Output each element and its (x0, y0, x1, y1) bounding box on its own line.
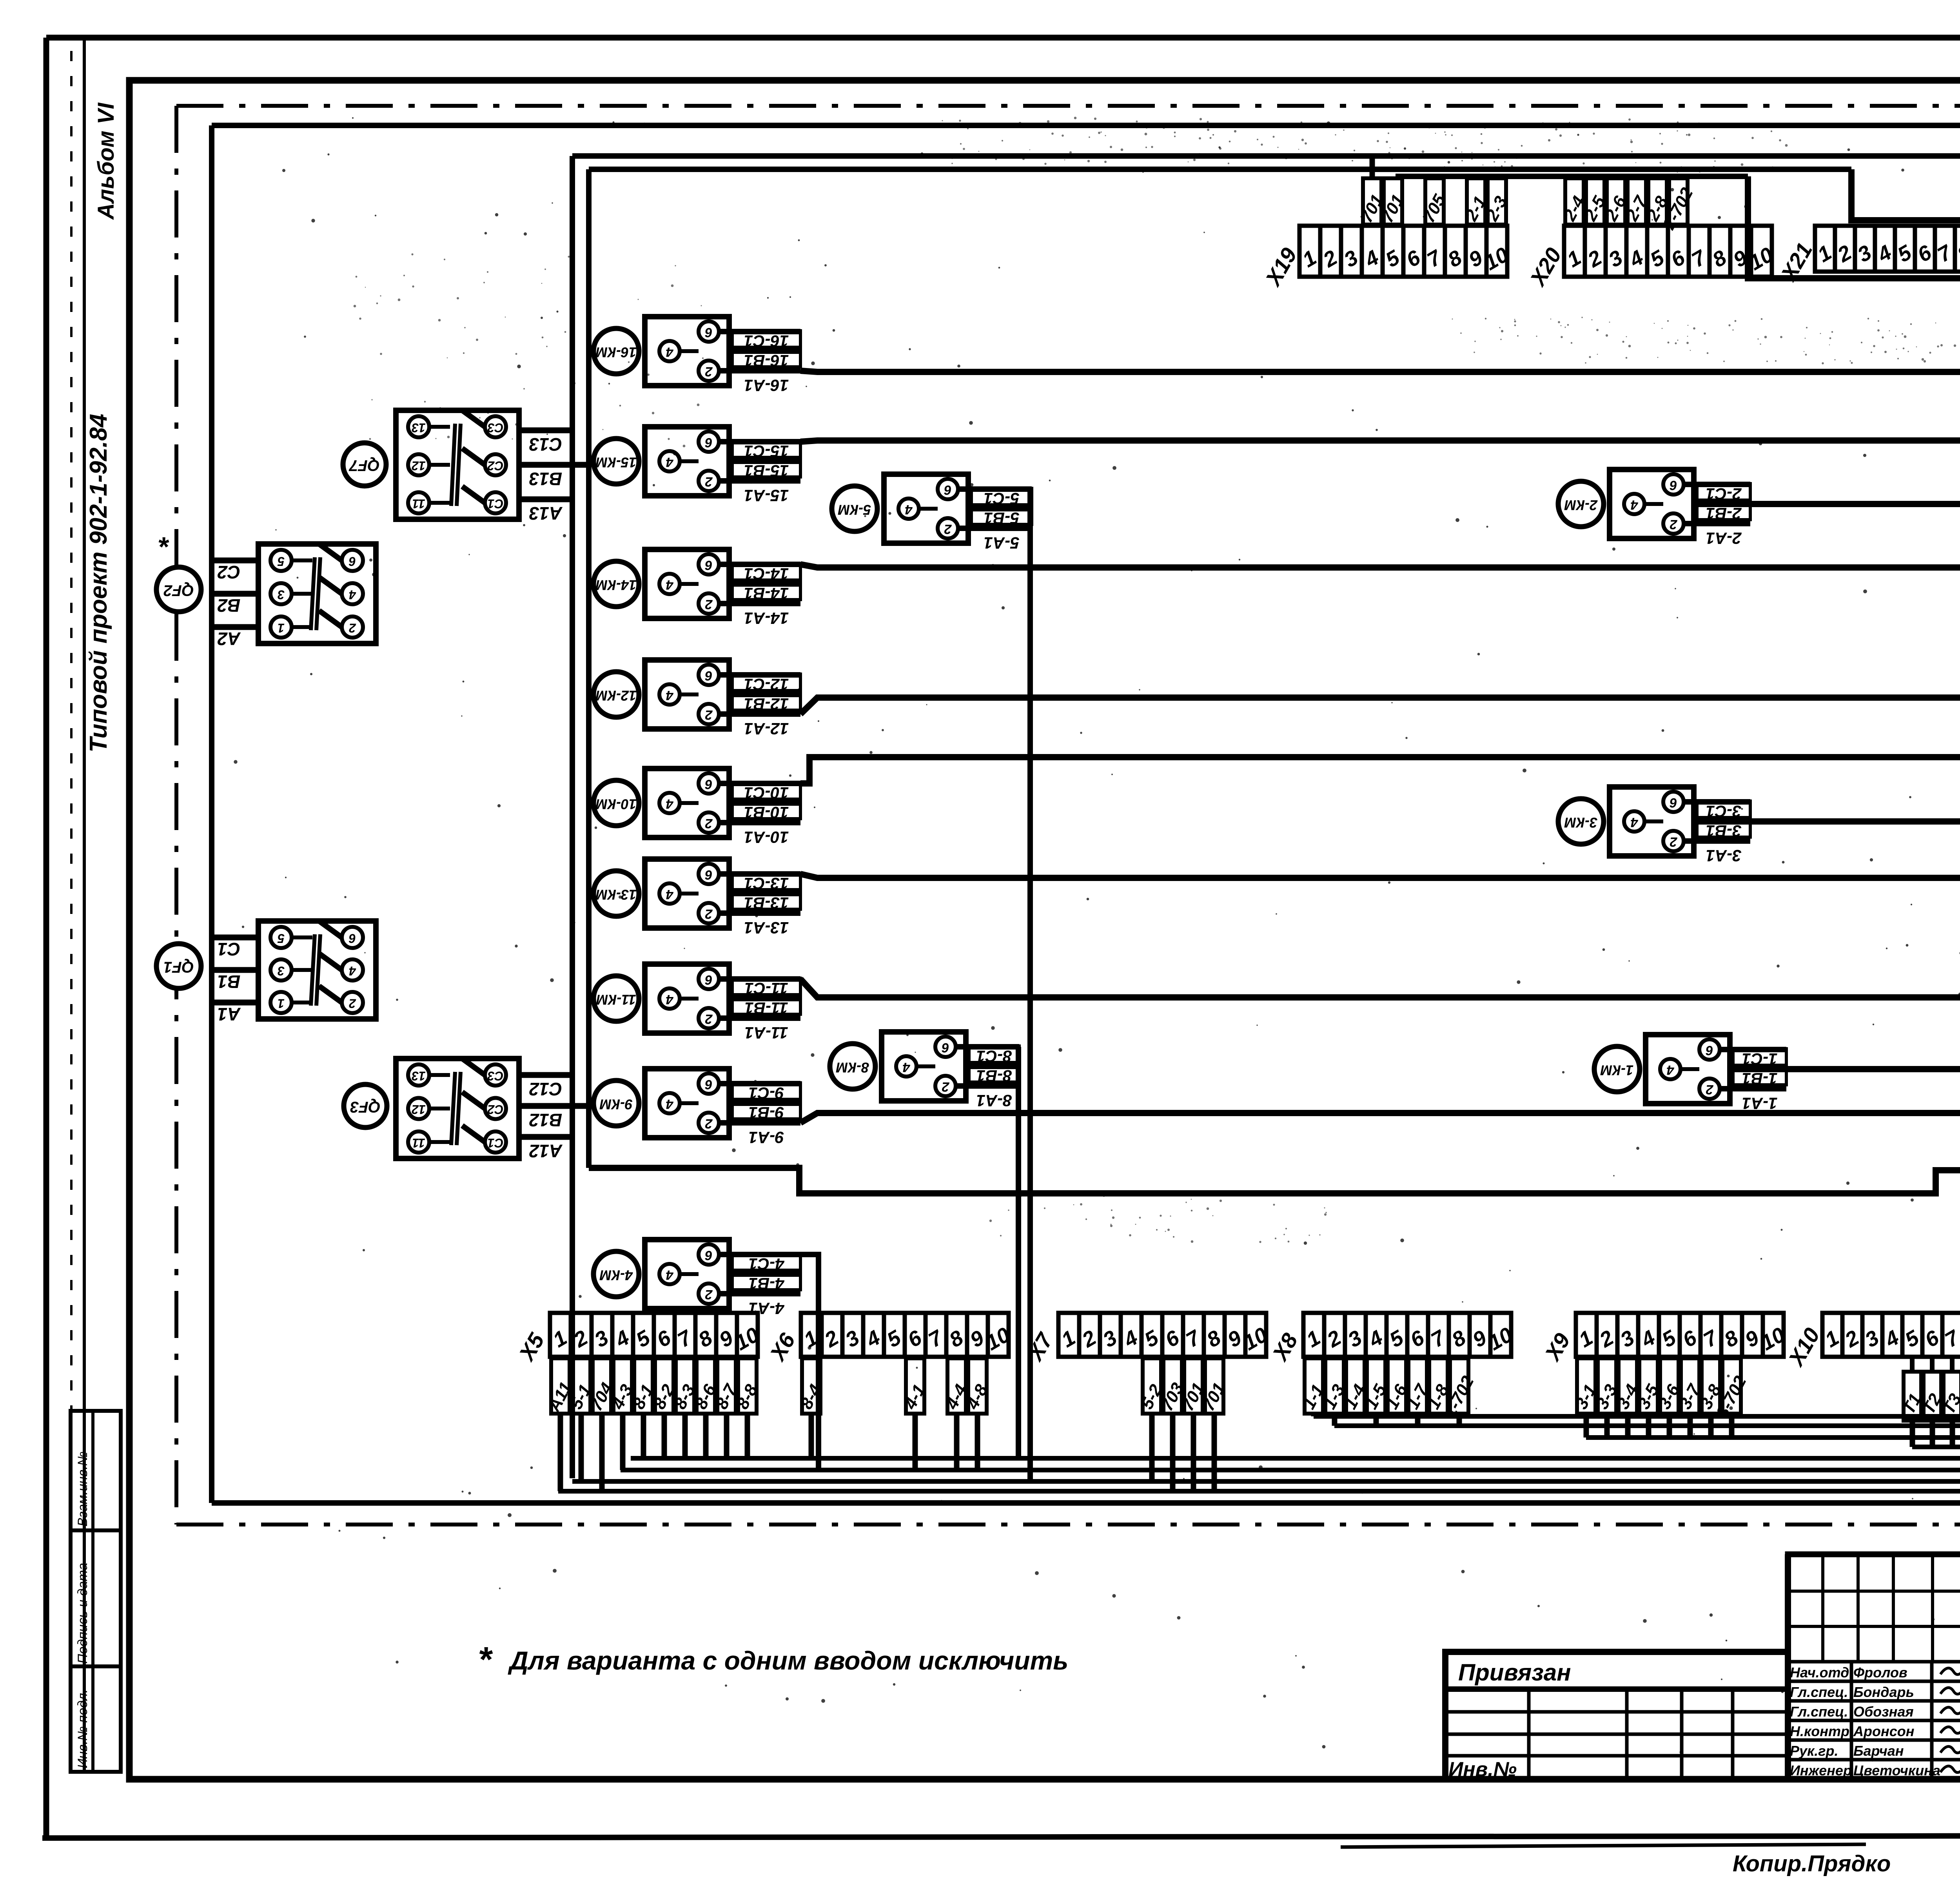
svg-text:QF7: QF7 (348, 457, 380, 474)
cabinet boundary dash-dot left (174, 106, 178, 1525)
QF2 pin 3 (270, 583, 292, 604)
svg-text:5-С1: 5-С1 (984, 489, 1019, 508)
5-КМ pin 6 (938, 479, 958, 499)
wire 703 down (1170, 1414, 1176, 1491)
svg-text:Альбом VI: Альбом VI (93, 102, 119, 220)
svg-text:С2: С2 (217, 562, 240, 582)
terminal wire label 3-1 (1577, 1358, 1595, 1414)
svg-text:15-В1: 15-В1 (744, 462, 789, 480)
svg-text:2-КМ: 2-КМ (1564, 497, 1598, 513)
12-КМ pin 2 (699, 704, 719, 724)
svg-text:С12: С12 (529, 1079, 562, 1099)
8-КМ pin 6 (935, 1037, 956, 1057)
svg-text:2: 2 (1670, 834, 1677, 849)
wire 1-1 down (1311, 1414, 1317, 1416)
bus 1-x wires a (1314, 1414, 1960, 1419)
terminal wire label 2-7 (1628, 178, 1646, 225)
wire 15-КМ stub C (719, 439, 800, 444)
wire 4-3 down (620, 1414, 626, 1470)
svg-text:15-КМ: 15-КМ (595, 454, 637, 470)
svg-text:2: 2 (705, 1287, 713, 1302)
sheet border top (46, 35, 1960, 41)
svg-text:6: 6 (1669, 795, 1677, 810)
wire QF3 output A12 (519, 1134, 572, 1140)
wire 705 up (1432, 176, 1437, 178)
11-КМ pin 4 (659, 988, 680, 1009)
wire label 4-C1 (732, 1254, 800, 1270)
svg-text:2: 2 (349, 621, 356, 635)
svg-text:Бондарь: Бондарь (1853, 1684, 1914, 1700)
wire 2-3 up (1494, 176, 1500, 178)
svg-text:А1: А1 (218, 1004, 241, 1024)
svg-text:QF3: QF3 (350, 1098, 381, 1115)
svg-text:QF2: QF2 (163, 582, 194, 599)
wire label 12-C1 (732, 674, 800, 691)
svg-text:6: 6 (704, 1077, 712, 1092)
wire 13-КМ long run (800, 874, 1960, 878)
svg-text:2: 2 (705, 597, 713, 612)
svg-text:5-В1: 5-В1 (984, 509, 1019, 528)
svg-text:9-А1: 9-А1 (748, 1128, 784, 1147)
circuit breaker QF3 box (396, 1059, 519, 1158)
QF3 pin 11 (408, 1131, 429, 1153)
svg-text:2: 2 (942, 1079, 949, 1094)
wire 3-KM run to H3 row (1694, 818, 1960, 825)
svg-text:2: 2 (1670, 517, 1677, 532)
wire 3-702 down (1729, 1414, 1735, 1438)
wire label 16-B1 (732, 350, 800, 367)
svg-text:12: 12 (412, 1102, 426, 1117)
svg-text:Подпись и дата: Подпись и дата (75, 1563, 90, 1664)
QF7 pin С1 (485, 492, 506, 513)
wire 8-6 down (703, 1414, 709, 1458)
terminal wire label 4-3 (613, 1358, 632, 1414)
bus 3-x wires (1586, 1435, 1960, 1440)
terminal wire label 3-7 (1681, 1358, 1699, 1414)
wire 5-КМ stub B (968, 506, 1032, 511)
wire 8-КМ stub A (956, 1083, 1019, 1089)
terminal wire label 8-7 (717, 1358, 736, 1414)
device outline bottom (212, 1500, 1960, 1506)
2-КМ pin 2 (1663, 513, 1684, 534)
svg-text:12-В1: 12-В1 (744, 695, 789, 713)
wire 4-КМ stub A (719, 1291, 800, 1296)
scan smudge clusters (354, 117, 1960, 1243)
bus 1-x wires b (1334, 1423, 1960, 1428)
svg-text:4: 4 (1630, 497, 1638, 512)
svg-text:4: 4 (1666, 1062, 1674, 1077)
3-КМ pin 6 (1663, 792, 1684, 812)
wire 8-КМ stub B (966, 1064, 1019, 1069)
stamp box Podpis i data (71, 1530, 121, 1666)
terminal wire label 1-8 (1429, 1358, 1448, 1414)
wire step to K6 row (1851, 169, 1960, 255)
terminal wire label 5-2 (1143, 1358, 1161, 1414)
terminal wire label 704 (593, 1358, 611, 1414)
svg-text:12-А1: 12-А1 (744, 720, 789, 738)
8-КМ pin 4 (896, 1056, 916, 1077)
svg-text:8-КМ: 8-КМ (836, 1059, 869, 1075)
svg-text:Нач.отд.: Нач.отд. (1790, 1664, 1853, 1680)
wire 2-КМ stub A (1684, 521, 1750, 526)
circuit breaker QF1 circle (156, 944, 201, 988)
wire 16-КМ stub B (729, 348, 800, 354)
svg-text:С1: С1 (488, 497, 504, 511)
terminal wire label 2-3 (1488, 178, 1506, 225)
wire 5-КМ stub C (958, 486, 1032, 492)
contactor 11-КМ circle (593, 976, 639, 1021)
terminal wire label 2-6 (1607, 178, 1625, 225)
contactor 4-КМ circle (593, 1251, 639, 1297)
contactor 16-КМ box (645, 317, 729, 386)
wire 8-3 down (682, 1414, 688, 1458)
16-КМ pin 4 (659, 341, 680, 361)
13-КМ pin 6 (699, 864, 719, 884)
svg-text:3: 3 (278, 964, 285, 978)
svg-text:1-КМ: 1-КМ (1600, 1062, 1633, 1078)
wire 2-4 up (1572, 176, 1577, 178)
wire 10-KM jog to K10 row (800, 757, 1960, 783)
wire 2-КМ stub C (1684, 482, 1750, 487)
wire Т1 down (1910, 1421, 1915, 1447)
terminal wire label 8-6 (697, 1358, 715, 1414)
svg-text:С1: С1 (218, 939, 241, 959)
svg-text:13: 13 (412, 421, 426, 435)
svg-text:4: 4 (666, 1097, 673, 1111)
QF3 pin С1 (485, 1131, 506, 1153)
wires X10 cells to T labels (1910, 1357, 1915, 1372)
svg-text:2: 2 (705, 906, 713, 921)
wire label 15-B1 (732, 460, 800, 477)
terminal wire label 4-8 (968, 1358, 987, 1414)
terminal wire label 3-4 (1619, 1358, 1637, 1414)
3-КМ pin 4 (1624, 811, 1644, 832)
circuit breaker QF7 box (396, 410, 519, 519)
svg-text:4: 4 (666, 887, 673, 902)
4-КМ pin 2 (699, 1283, 719, 1304)
wire label 16-C1 (732, 331, 800, 347)
feeder line B to yaschik 18 (572, 153, 1960, 159)
svg-text:6: 6 (704, 435, 712, 450)
wire QF7 output A13 (519, 497, 572, 502)
svg-text:Привязан: Привязан (1458, 1659, 1571, 1686)
terminal wire label 3-3 (1598, 1358, 1616, 1414)
svg-text:5: 5 (277, 555, 285, 569)
svg-text:В13: В13 (529, 469, 562, 489)
wire 701 down (1212, 1414, 1217, 1491)
wire label 13-B1 (732, 893, 800, 909)
terminal wire label 705 (1425, 178, 1444, 225)
svg-text:6: 6 (704, 558, 712, 573)
wire 11-КМ stub B (729, 996, 800, 1001)
sheet border left (44, 38, 49, 1835)
svg-text:2: 2 (705, 1012, 713, 1026)
terminal wire label 701 (1363, 178, 1381, 225)
svg-text:10-А1: 10-А1 (744, 828, 789, 847)
svg-text:12: 12 (412, 459, 426, 473)
14-КМ pin 6 (699, 554, 719, 575)
wire 1-5 down (1374, 1414, 1379, 1426)
QF1 trip bar (311, 934, 315, 1006)
wire label 10-C1 (732, 783, 800, 799)
contactor 15-КМ circle (593, 439, 639, 484)
wire 1-6 down (1394, 1414, 1400, 1416)
circuit breaker QF3 circle (344, 1084, 387, 1128)
terminal wire label 8-3 (676, 1358, 694, 1414)
wire 10-КМ stub A (719, 820, 800, 825)
QF2 pin 5 (270, 550, 292, 571)
wire 11-КМ stub A (719, 1015, 800, 1021)
svg-text:14-КМ: 14-КМ (595, 577, 637, 593)
svg-text:Фролов: Фролов (1853, 1664, 1907, 1680)
wire 1-3 down (1332, 1414, 1338, 1426)
contactor 11-КМ box (645, 964, 729, 1033)
terminal wire label 1-6 (1388, 1358, 1406, 1414)
wire Т2 down (1930, 1421, 1935, 1447)
svg-text:6: 6 (704, 325, 712, 340)
14-КМ pin 4 (659, 574, 680, 594)
QF2 pin 4 (342, 583, 363, 604)
svg-text:2: 2 (705, 474, 713, 489)
wire label 14-C1 (732, 564, 800, 580)
svg-text:4: 4 (1630, 815, 1638, 830)
wire label 2-C1 (1697, 484, 1750, 500)
terminal wire label 1-5 (1367, 1358, 1385, 1414)
bus T telemetry wires (1912, 1445, 1960, 1449)
wire 1-702 down (1457, 1414, 1462, 1426)
wire label 15-C1 (732, 441, 800, 457)
svg-text:1: 1 (278, 621, 285, 635)
wire QF3 output B12 (519, 1103, 589, 1109)
svg-text:4: 4 (349, 588, 356, 602)
QF2 pin 1 (270, 616, 292, 638)
QF3 pin 13 (408, 1064, 429, 1086)
svg-text:Гл.спец.: Гл.спец. (1790, 1684, 1848, 1700)
svg-text:Копир.Прядко: Копир.Прядко (1733, 1851, 1891, 1876)
9-КМ pin 2 (699, 1113, 719, 1133)
terminal wire label 8-8 (738, 1358, 757, 1414)
svg-text:4: 4 (666, 992, 673, 1007)
svg-text:10-С1: 10-С1 (744, 784, 789, 802)
wire 14-КМ long run (800, 564, 1960, 567)
QF3 trip bar (451, 1072, 455, 1145)
cabinet boundary dash-dot top (176, 104, 1960, 108)
wire 15-КМ long run (800, 441, 1960, 442)
svg-text:Инв.№ подл.: Инв.№ подл. (75, 1689, 90, 1768)
svg-text:Рук.гр.: Рук.гр. (1790, 1743, 1838, 1759)
wire 14-КМ stub A (719, 601, 800, 606)
wire QF3 route step (589, 1168, 1960, 1193)
contactor 10-КМ box (645, 769, 729, 838)
wire label 9-B1 (732, 1102, 800, 1119)
svg-text:5-КМ: 5-КМ (838, 502, 871, 518)
11-КМ pin 2 (699, 1008, 719, 1028)
wire label 12-B1 (732, 694, 800, 710)
terminal wire label Т3 (1944, 1372, 1960, 1421)
svg-text:11-А1: 11-А1 (744, 1024, 788, 1042)
wire 8-KM riser down to 8-x bus (1016, 1047, 1021, 1458)
svg-text:2: 2 (944, 522, 952, 537)
wire 5-2 down (1149, 1414, 1155, 1481)
privyazan box (1445, 1652, 1788, 1779)
svg-text:8-В1: 8-В1 (976, 1067, 1012, 1085)
9-КМ pin 6 (699, 1073, 719, 1094)
wire 1-КМ stub A (1720, 1086, 1786, 1091)
wire step to K2 row (1748, 176, 1960, 319)
terminal wire label 1-1 (1305, 1358, 1323, 1414)
svg-text:14-А1: 14-А1 (744, 609, 789, 627)
wire 3-КМ stub C (1684, 799, 1750, 805)
svg-text:8-А1: 8-А1 (976, 1091, 1012, 1110)
svg-text:4: 4 (666, 688, 673, 703)
wire label 11-C1 (732, 978, 800, 995)
svg-text:4: 4 (666, 796, 673, 811)
contactor 10-КМ circle (593, 780, 639, 826)
terminal wire label 4-4 (947, 1358, 966, 1414)
svg-text:С3: С3 (487, 421, 503, 435)
wire 701 up (1390, 176, 1396, 178)
contactor 13-КМ box (645, 859, 729, 928)
svg-text:12-КМ: 12-КМ (595, 687, 637, 703)
terminal wire label 701 (1205, 1358, 1223, 1414)
contactor 2-КМ circle (1558, 481, 1604, 527)
svg-text:4: 4 (905, 502, 913, 517)
4-КМ pin 4 (659, 1264, 680, 1284)
svg-text:Типовой проект 902-1-92.84: Типовой проект 902-1-92.84 (85, 414, 112, 752)
wire 3-7 down (1688, 1414, 1693, 1438)
wire label 3-B1 (1697, 821, 1750, 837)
svg-text:Инв.№: Инв.№ (1448, 1758, 1517, 1781)
wire 704 down (599, 1414, 605, 1491)
svg-text:Для варианта с одним вво: Для варианта с одним вводом исключить (508, 1646, 1068, 1675)
svg-text:2: 2 (705, 816, 713, 831)
12-КМ pin 4 (659, 684, 680, 705)
wire 2-8 up (1655, 176, 1661, 178)
terminal wire label Т1 (1904, 1372, 1921, 1421)
wire 3-КМ stub A (1684, 838, 1750, 844)
svg-text:А2: А2 (217, 629, 241, 649)
circuit breaker QF2 box (258, 544, 376, 644)
svg-text:6: 6 (1669, 478, 1677, 493)
svg-text:13: 13 (412, 1069, 426, 1083)
svg-text:3-А1: 3-А1 (1706, 847, 1741, 865)
svg-text:Аронсон: Аронсон (1853, 1723, 1915, 1739)
svg-text:16-КМ: 16-КМ (595, 344, 637, 360)
svg-text:3-КМ: 3-КМ (1564, 814, 1597, 830)
terminal wire label 3-5 (1639, 1358, 1658, 1414)
QF3 pin С3 (485, 1064, 506, 1086)
QF7 pin С2 (485, 454, 506, 475)
title block code cell (1785, 1554, 1791, 1779)
wire 5-KM riser down to 5-x bus (1027, 489, 1033, 1481)
svg-text:2-А1: 2-А1 (1706, 529, 1742, 547)
stamp box Vzam.inv (71, 1411, 121, 1530)
svg-text:Гл.спец.: Гл.спец. (1790, 1704, 1848, 1720)
wire 16-КМ stub C (719, 329, 800, 334)
svg-text:8-С1: 8-С1 (976, 1047, 1012, 1066)
svg-text:6: 6 (349, 555, 356, 569)
wire QF1 input B1 (212, 967, 258, 973)
terminal wire label 2-5 (1586, 178, 1604, 225)
contactor 9-КМ circle (593, 1080, 639, 1126)
wire 12-КМ long run (800, 698, 1960, 714)
contactor 14-КМ box (645, 549, 729, 618)
wire 12-КМ stub B (729, 692, 800, 697)
svg-text:10-КМ: 10-КМ (595, 796, 637, 812)
wire label 9-C1 (732, 1083, 800, 1099)
terminal wire label 1-702 (1450, 1358, 1468, 1414)
svg-text:15-А1: 15-А1 (744, 486, 789, 505)
svg-text:*: * (479, 1640, 493, 1679)
svg-text:6: 6 (704, 972, 712, 987)
svg-text:2-С1: 2-С1 (1706, 485, 1742, 503)
wire 15-КМ stub A (719, 478, 800, 484)
terminal wire label 8-2 (655, 1358, 673, 1414)
terminal wire label 2-1 (1467, 178, 1485, 225)
wire 9-КМ stub B (729, 1100, 800, 1106)
terminal wire label 5-1 (572, 1358, 590, 1414)
QF2 pin 6 (342, 550, 363, 571)
svg-text:16-С1: 16-С1 (744, 332, 789, 350)
svg-text:11: 11 (412, 1136, 425, 1150)
scan speckle noise (234, 117, 1960, 1762)
wire QF3 output C12 (519, 1072, 572, 1078)
wire 3-8 down (1708, 1414, 1714, 1438)
wire 14-КМ stub B (729, 581, 800, 587)
wire label 8-B1 (969, 1066, 1019, 1082)
svg-text:9-С1: 9-С1 (748, 1084, 784, 1102)
16-КМ pin 6 (699, 321, 719, 342)
sheet margin line (83, 39, 86, 1771)
svg-text:2: 2 (705, 1116, 713, 1131)
wire 4-8 down (975, 1414, 980, 1470)
wire 1-4 down (1353, 1414, 1358, 1416)
QF7 pin 13 (408, 416, 429, 437)
svg-text:4-В1: 4-В1 (748, 1274, 784, 1293)
feeder line C to yaschik 6 (589, 167, 1851, 172)
svg-text:13-А1: 13-А1 (744, 919, 789, 937)
wire QF2 input B2 (212, 591, 258, 597)
15-КМ pin 6 (699, 431, 719, 452)
svg-text:А13: А13 (529, 503, 563, 524)
bus 5-x wires (572, 1479, 1960, 1484)
svg-text:4: 4 (902, 1060, 910, 1075)
wire 701 up (1370, 156, 1375, 178)
svg-text:13-КМ: 13-КМ (595, 886, 637, 903)
svg-text:13-С1: 13-С1 (744, 874, 789, 893)
terminal wire label 2-702 (1669, 178, 1688, 225)
contactor 2-КМ box (1610, 470, 1694, 538)
13-КМ pin 2 (699, 903, 719, 923)
QF2 trip bar (311, 557, 315, 630)
wire 2-KM run to H2 row (1694, 501, 1960, 507)
wire 3-6 down (1667, 1414, 1672, 1438)
feeder line D 2-x wires (1396, 174, 1748, 179)
contactor 3-КМ box (1610, 787, 1694, 856)
svg-text:2: 2 (1706, 1082, 1713, 1097)
wire 10-КМ stub C (719, 781, 800, 786)
15-КМ pin 4 (659, 451, 680, 471)
svg-text:11-В1: 11-В1 (744, 999, 788, 1017)
wire 3-КМ stub B (1694, 819, 1750, 824)
wire 2-КМ stub B (1694, 501, 1750, 507)
QF1 pin 1 (270, 992, 292, 1013)
wire 1-КМ stub C (1720, 1047, 1786, 1052)
wire 4-КМ stub C (719, 1252, 800, 1257)
svg-text:4: 4 (666, 577, 673, 592)
svg-text:В2: В2 (217, 595, 240, 616)
QF1 pin 2 (342, 992, 363, 1013)
